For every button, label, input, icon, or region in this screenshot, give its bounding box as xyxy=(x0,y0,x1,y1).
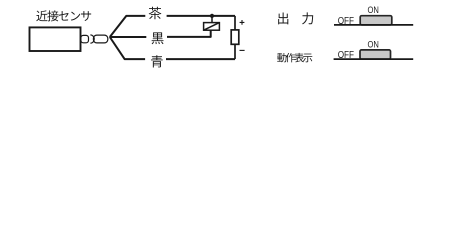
svg-text:OFF: OFF xyxy=(338,16,354,27)
svg-text:ON: ON xyxy=(368,5,380,16)
svg-text:ON: ON xyxy=(368,39,380,50)
svg-text:OFF: OFF xyxy=(338,50,354,61)
